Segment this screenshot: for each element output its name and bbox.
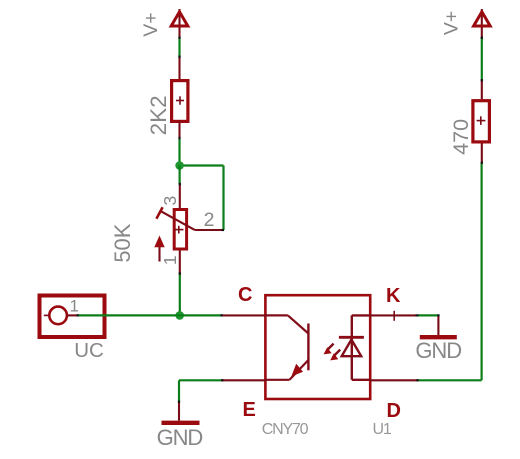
- svg-text:U1: U1: [373, 421, 392, 438]
- LED triangle: [342, 340, 362, 357]
- svg-text:470: 470: [449, 119, 473, 155]
- wire: [481, 163, 483, 380]
- svg-text:2K2: 2K2: [146, 95, 171, 135]
- LED vertical wire: [351, 315, 353, 379]
- svg-text:3: 3: [160, 196, 180, 206]
- wire: [481, 37, 483, 80]
- wire: [180, 164, 224, 166]
- svg-text:CNY70: CNY70: [262, 421, 309, 438]
- resistor 470: [473, 101, 490, 142]
- svg-text:E: E: [243, 399, 256, 421]
- svg-text:V+: V+: [140, 12, 162, 36]
- ground GND left: [162, 402, 200, 423]
- pin D: [370, 379, 418, 381]
- svg-text:K: K: [386, 285, 401, 307]
- pin: [178, 122, 180, 140]
- pin: [481, 144, 483, 164]
- wire: [179, 379, 222, 381]
- node junction: [175, 311, 184, 320]
- pin E: [222, 379, 266, 381]
- light arrow 2: [330, 350, 340, 361]
- pin: [178, 57, 180, 80]
- svg-text:GND: GND: [157, 425, 203, 450]
- pin 3: [179, 184, 181, 209]
- pin K tick: [393, 311, 395, 321]
- phototransistor base bar: [307, 324, 309, 371]
- phototransistor collector: [266, 314, 288, 316]
- phototransistor emitter: [290, 360, 309, 380]
- wire: [418, 314, 439, 316]
- connector UC box: [40, 296, 105, 338]
- optocoupler U1 box: [265, 295, 370, 399]
- potentiometer wiper: [156, 207, 194, 230]
- svg-text:D: D: [387, 400, 401, 422]
- wire: [78, 314, 222, 316]
- connector pin: [67, 314, 78, 316]
- pin K: [370, 314, 416, 316]
- svg-text:1: 1: [69, 297, 78, 316]
- wire: [178, 139, 180, 166]
- wire: [179, 166, 181, 185]
- svg-text:50K: 50K: [110, 223, 135, 262]
- wire: [178, 380, 180, 402]
- resistor 2K2: [172, 81, 188, 122]
- pin: [481, 80, 483, 99]
- supply V+ left: [171, 9, 188, 37]
- node junction: [175, 161, 184, 170]
- LED cathode bar: [339, 336, 364, 339]
- pin C: [222, 314, 266, 316]
- wire: [418, 379, 482, 381]
- svg-text:C: C: [238, 284, 252, 306]
- wire: [222, 166, 224, 231]
- pin 1: [179, 251, 181, 274]
- pin 2: [195, 229, 224, 231]
- potentiometer 50K body: [174, 210, 186, 250]
- light arrow 1: [324, 344, 334, 355]
- ground GND right: [420, 315, 457, 337]
- svg-text:1: 1: [160, 255, 180, 265]
- potentiometer arrow: [154, 236, 164, 262]
- svg-text:UC: UC: [74, 339, 104, 362]
- wire: [178, 37, 180, 57]
- svg-text:GND: GND: [415, 338, 461, 363]
- supply V+ right: [474, 9, 491, 37]
- emitter arrow: [291, 364, 303, 377]
- junction overlap marks: [77, 37, 482, 404]
- svg-text:2: 2: [204, 209, 215, 231]
- svg-text:V+: V+: [441, 11, 463, 35]
- wire: [179, 274, 181, 316]
